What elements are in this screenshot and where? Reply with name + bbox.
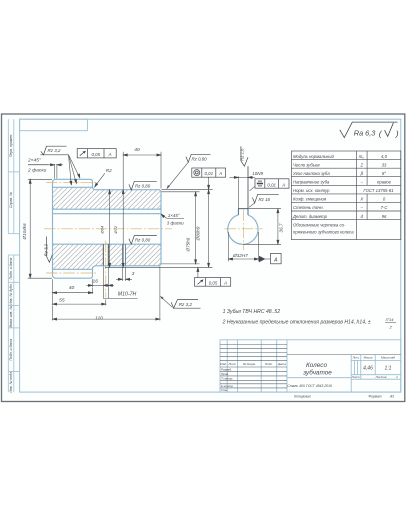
dimension 2x45 chamfer bbox=[28, 164, 63, 179]
dimension lines dia inside (Ø64 / Ø72) bbox=[109, 190, 125, 268]
svg-text:Ra 6,3: Ra 6,3 bbox=[354, 129, 376, 138]
svg-text:Rz 3,2: Rz 3,2 bbox=[44, 243, 49, 256]
svg-text:0,05: 0,05 bbox=[209, 280, 218, 285]
dimension 40 top bbox=[123, 152, 161, 190]
gear parameter table bbox=[291, 151, 400, 240]
svg-text:Ø32H7: Ø32H7 bbox=[232, 253, 248, 258]
svg-text:4,0: 4,0 bbox=[381, 154, 388, 159]
svg-text:Инв. № подл.: Инв. № подл. bbox=[9, 371, 13, 393]
left margin strip columns bbox=[8, 119, 19, 392]
svg-text:40: 40 bbox=[69, 285, 75, 291]
svg-text:Колесо: Колесо bbox=[306, 362, 327, 369]
dimension Ø75h6 bbox=[162, 192, 200, 264]
svg-text:Z: Z bbox=[359, 162, 363, 167]
dimension texts bbox=[27, 147, 278, 321]
svg-text:Изм.: Изм. bbox=[220, 362, 227, 366]
tooth root line top bbox=[53, 186, 93, 188]
svg-text:Ø80h9: Ø80h9 bbox=[196, 226, 201, 241]
svg-text:0,01: 0,01 bbox=[267, 182, 276, 187]
svg-text:Формат: Формат bbox=[368, 395, 381, 399]
rotated roughness Rz 1.6 (keyway side) bbox=[241, 146, 248, 208]
dimension Ø80h9 bbox=[105, 190, 213, 268]
roughness Rz 3.2 top-left with 3 leaders bbox=[40, 146, 68, 155]
cylinder top line bbox=[96, 190, 161, 192]
svg-text:А: А bbox=[108, 152, 112, 157]
svg-text:Коэф. смещения: Коэф. смещения bbox=[293, 197, 327, 202]
symmetry frame 0.01 A (keyway) bbox=[250, 179, 290, 191]
leader R2 bbox=[95, 173, 105, 187]
svg-text:Rz 1,6: Rz 1,6 bbox=[239, 148, 244, 161]
svg-text:Ø104k6: Ø104k6 bbox=[22, 223, 27, 241]
svg-text:Rz 16: Rz 16 bbox=[259, 197, 271, 202]
svg-text:Подп. и дата: Подп. и дата bbox=[9, 339, 13, 361]
bore dimension Ø32H7 with datum A bbox=[228, 232, 281, 264]
hatched rim lower (3 parts: M10 hole and groove left white) bbox=[53, 244, 104, 269]
surface finish general mark Ra 6.3 bbox=[340, 122, 398, 138]
svg-text:Rz 0,80: Rz 0,80 bbox=[135, 238, 151, 243]
inner frame bbox=[20, 119, 401, 392]
concentricity frame 0.01 A bbox=[192, 168, 226, 177]
svg-text:2×45°: 2×45° bbox=[27, 158, 41, 164]
roughness Rz 3.2 bottom right bbox=[160, 296, 201, 308]
svg-text:mn: mn bbox=[359, 154, 365, 160]
svg-text:3: 3 bbox=[132, 271, 135, 277]
svg-text:№ докум.: № докум. bbox=[243, 362, 256, 366]
side view crosshair bbox=[225, 228, 263, 230]
bore surface line behind keyway bbox=[53, 213, 162, 215]
svg-text:Подп. и дата: Подп. и дата bbox=[9, 258, 13, 280]
runout frame 0.05 A (top) bbox=[77, 149, 116, 158]
notes bbox=[222, 309, 395, 329]
svg-text:Перв. примен.: Перв. примен. bbox=[9, 134, 13, 157]
svg-text:55: 55 bbox=[59, 297, 65, 303]
svg-text:2 фаски: 2 фаски bbox=[27, 168, 47, 174]
svg-text:8°: 8° bbox=[382, 171, 386, 176]
gear body outline bbox=[53, 179, 162, 278]
sheet outer border bbox=[2, 114, 405, 402]
svg-text:36,7: 36,7 bbox=[278, 223, 283, 232]
svg-text:10N9: 10N9 bbox=[252, 171, 263, 176]
pitch line bottom bbox=[46, 272, 97, 274]
svg-text:0,01: 0,01 bbox=[205, 171, 214, 176]
svg-text:Справ. №: Справ. № bbox=[9, 192, 13, 208]
svg-text:7-С: 7-С bbox=[381, 205, 389, 210]
dimension 40 bottom bbox=[53, 288, 93, 295]
svg-text:16: 16 bbox=[92, 279, 98, 285]
roughness Rz 0.80 with leader (cylinder) bbox=[167, 154, 211, 189]
svg-text:Лит.: Лит. bbox=[351, 356, 359, 360]
svg-text:Ø75h6: Ø75h6 bbox=[185, 237, 190, 252]
svg-text:β: β bbox=[360, 171, 364, 176]
svg-text:1 Зубья ТВЧ HRC 48..52: 1 Зубья ТВЧ HRC 48..52 bbox=[223, 309, 281, 315]
svg-text:А: А bbox=[281, 182, 285, 187]
left face bbox=[52, 181, 54, 276]
centerlines (orange dash-dot) bbox=[44, 182, 263, 297]
M10 hole axis bbox=[105, 241, 107, 298]
svg-text:Угол наклона зуба: Угол наклона зуба bbox=[293, 171, 330, 176]
svg-text:Лист: Лист bbox=[227, 362, 236, 366]
svg-text:Rz 3,2: Rz 3,2 bbox=[179, 302, 193, 307]
roughness Rz 16 (keyway bottom) bbox=[249, 194, 279, 207]
bore chamfers bbox=[159, 208, 161, 210]
svg-text:Ø64: Ø64 bbox=[100, 225, 105, 234]
svg-text:Делит. диаметр: Делит. диаметр bbox=[292, 214, 328, 219]
svg-text:Модуль нормальный: Модуль нормальный bbox=[293, 154, 334, 159]
svg-text:40: 40 bbox=[134, 147, 140, 153]
dimension Ø104k6 left bbox=[28, 179, 52, 278]
svg-text:Т.контр.: Т.контр. bbox=[221, 377, 233, 381]
M10-7H callout bbox=[103, 267, 137, 299]
bore upper line (keyway section) bbox=[53, 208, 162, 210]
title block texts bbox=[220, 356, 398, 393]
svg-text:Число зубьев: Число зубьев bbox=[293, 162, 320, 167]
rotated dimension texts bbox=[22, 223, 284, 253]
svg-text:0,05: 0,05 bbox=[92, 152, 101, 157]
svg-text:Ø72: Ø72 bbox=[113, 225, 118, 234]
svg-text:Направление зуба: Направление зуба bbox=[293, 180, 330, 185]
groove 3mm walls bbox=[123, 244, 126, 266]
svg-text:Пров.: Пров. bbox=[221, 372, 229, 376]
svg-text:1:1: 1:1 bbox=[385, 366, 392, 372]
svg-text:А: А bbox=[218, 171, 222, 176]
svg-text:33: 33 bbox=[382, 162, 387, 167]
svg-text:Масштаб: Масштаб bbox=[381, 356, 395, 360]
keyway depth 36.7 dimension bbox=[238, 209, 281, 245]
svg-text:Степень точн.: Степень точн. bbox=[293, 205, 324, 210]
right face bbox=[160, 191, 162, 264]
svg-text:А: А bbox=[273, 258, 278, 264]
lower tooth strip bbox=[53, 266, 96, 278]
svg-text:Норм. исх. контур: Норм. исх. контур bbox=[293, 188, 330, 193]
bore lower line bbox=[53, 243, 162, 245]
left strip labels bbox=[9, 134, 13, 393]
svg-text:Взам. инв. №: Взам. инв. № bbox=[9, 306, 13, 328]
svg-text:2 Неуказанные предельные откло: 2 Неуказанные предельные отклонения разм… bbox=[222, 320, 371, 326]
hatched rim upper bbox=[53, 187, 162, 209]
dimension 55 bbox=[53, 279, 106, 305]
M10 threaded hole walls bbox=[103, 244, 108, 266]
svg-text:А3: А3 bbox=[389, 395, 394, 399]
roughness Rz 0.80 on bore bbox=[129, 236, 157, 245]
svg-text:110: 110 bbox=[95, 315, 103, 321]
dimension 110 bbox=[53, 267, 160, 321]
svg-text:Инв. № дубл.: Инв. № дубл. bbox=[9, 283, 13, 305]
keyway width 10N9 dimension bbox=[229, 167, 255, 215]
svg-text:M10-7H: M10-7H bbox=[118, 292, 137, 298]
svg-text:Rz 0,80: Rz 0,80 bbox=[192, 156, 208, 161]
pitch line top bbox=[46, 181, 97, 183]
svg-text:Обозначение чертежа со-: Обозначение чертежа со- bbox=[293, 223, 346, 228]
svg-text:Разраб.: Разраб. bbox=[221, 368, 232, 372]
svg-text:3 фаски: 3 фаски bbox=[167, 221, 184, 226]
svg-text:X: X bbox=[359, 197, 363, 202]
runout frame 0.05 A (bottom) bbox=[195, 278, 231, 287]
main axis bbox=[44, 228, 172, 230]
svg-text:Rz 3,2: Rz 3,2 bbox=[48, 148, 62, 153]
rotated roughness Rz 3.2 (left face) bbox=[47, 237, 53, 263]
svg-text:R2: R2 bbox=[106, 168, 112, 173]
svg-text:Масса: Масса bbox=[364, 356, 373, 360]
svg-text:Копировал: Копировал bbox=[294, 395, 311, 399]
svg-text:А: А bbox=[223, 280, 227, 285]
svg-text:Лист: Лист bbox=[351, 375, 360, 379]
svg-text:Rz 0,80: Rz 0,80 bbox=[135, 183, 151, 188]
svg-text:Листов: Листов bbox=[375, 375, 387, 379]
cylinder bottom line bbox=[96, 264, 161, 266]
svg-text:Подп.: Подп. bbox=[265, 362, 273, 366]
tooth root line bottom bbox=[53, 268, 93, 270]
svg-text:Утв.: Утв. bbox=[221, 388, 228, 392]
svg-text:зубчатое: зубчатое bbox=[302, 369, 332, 377]
title block bbox=[220, 340, 401, 392]
svg-text:Сталь 40Х ГОСТ 4543-2016: Сталь 40Х ГОСТ 4543-2016 bbox=[287, 384, 332, 388]
svg-text:4,46: 4,46 bbox=[363, 366, 373, 372]
dimension 16 bbox=[86, 279, 114, 287]
roughness Rz 0.80 on rim top bbox=[129, 181, 157, 190]
dimension 3 groove bbox=[116, 267, 132, 281]
upper tooth strip bbox=[53, 179, 96, 189]
leader 1x45 3 faski bbox=[161, 214, 184, 219]
svg-text:пряженного зубчатого колеса: пряженного зубчатого колеса bbox=[293, 230, 354, 235]
top-left spare box bbox=[20, 119, 88, 131]
svg-text:96: 96 bbox=[382, 214, 387, 219]
svg-text:ГОСТ 13755-81: ГОСТ 13755-81 bbox=[363, 188, 393, 193]
svg-text:): ) bbox=[395, 128, 399, 138]
svg-text:правое: правое bbox=[377, 180, 392, 185]
svg-text:Дата: Дата bbox=[277, 362, 286, 366]
svg-text:1×45°: 1×45° bbox=[168, 213, 180, 218]
svg-text:IT14: IT14 bbox=[386, 317, 395, 322]
